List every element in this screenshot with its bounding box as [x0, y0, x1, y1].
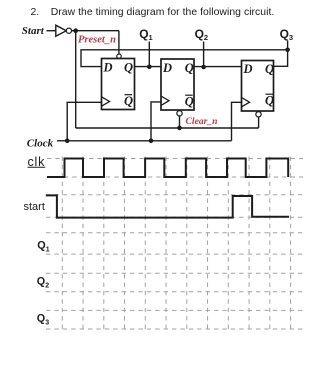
inverter U1 triangle [56, 25, 67, 36]
flip-flop U4 (FF3) box [242, 61, 274, 112]
wire clock branch to FF3 [232, 102, 242, 141]
wire clear branch up to FF2 bubble [179, 116, 181, 128]
svg-text:Q: Q [195, 27, 204, 41]
svg-text:Q: Q [280, 27, 289, 41]
svg-text:1: 1 [149, 33, 153, 42]
svg-text:2: 2 [204, 33, 208, 42]
svg-text:Q: Q [185, 61, 194, 75]
clk waveform trace [47, 159, 288, 178]
svg-text:Q: Q [37, 313, 45, 325]
svg-text:Start: Start [22, 25, 45, 37]
wire Q1 label drop [148, 42, 150, 67]
wire Q1 net FF1.Q to FF2.D [135, 66, 162, 68]
preset bubble on FF1 top [117, 54, 121, 58]
wire clock branch to FF2 [151, 102, 161, 141]
svg-text:3: 3 [45, 320, 49, 327]
node inverter output junction [73, 28, 78, 33]
wire Q3 net FF3.Q up to feedback [274, 50, 288, 67]
FF1 clock triangle [102, 97, 110, 106]
svg-text:Q: Q [265, 62, 274, 76]
wire bubble to node [72, 30, 76, 32]
wire clear stub up to FF3 bubble [258, 117, 260, 128]
node Q1 [147, 65, 152, 70]
svg-text:Preset_n: Preset_n [78, 34, 116, 45]
svg-text:2.: 2. [31, 7, 40, 18]
wire Q3 label drop [287, 41, 289, 50]
svg-text:Draw the timing diagram for th: Draw the timing diagram for the followin… [51, 7, 275, 18]
svg-text:start: start [24, 201, 45, 213]
svg-text:2: 2 [45, 283, 49, 290]
svg-text:Clear_n: Clear_n [186, 116, 218, 127]
clear bubble under FF3 [256, 112, 261, 117]
wire clear net horizontal run [76, 127, 259, 129]
FF3 clock triangle [242, 98, 250, 107]
wire clock branch to FF1 [67, 102, 101, 141]
svg-text:Q: Q [37, 276, 45, 288]
svg-text:Clock: Clock [27, 137, 54, 149]
FF2 Qbar overbar [185, 94, 193, 96]
start waveform trace [46, 195, 289, 217]
node Q3 [285, 48, 290, 53]
node clock FF1 branch [65, 139, 70, 144]
FF2 clock triangle [161, 96, 169, 105]
FF1 Qbar overbar [125, 94, 133, 96]
timing diagram horizontal dashed level lines [46, 159, 303, 330]
svg-text:1: 1 [46, 246, 50, 253]
svg-text:D: D [243, 62, 253, 76]
wire start vertical down to clear net [75, 31, 77, 128]
node clock FF2 branch [149, 139, 154, 144]
wire Q2 label drop [203, 42, 205, 68]
svg-text:Q: Q [124, 94, 133, 108]
wire preset top run [76, 30, 119, 32]
wire preset vertical to FF1 preset bubble [118, 31, 120, 54]
node Q2 [201, 65, 206, 70]
svg-text:Q: Q [124, 60, 133, 74]
wire clock main line [57, 140, 232, 142]
svg-text:Q: Q [37, 240, 45, 252]
flip-flop U2 (FF1) box [102, 59, 135, 110]
svg-text:D: D [162, 61, 172, 75]
clk label underline [28, 166, 46, 168]
flip-flop U3 (FF2) box [161, 59, 194, 110]
wire Start lead [47, 30, 56, 32]
timing diagram vertical dashed gridlines [62, 157, 290, 330]
wire feedback from Q3 node to D1 [81, 50, 288, 67]
FF3 Qbar overbar [266, 93, 274, 95]
node clear net at FF2 [177, 126, 182, 131]
svg-text:Q: Q [185, 95, 194, 109]
svg-text:3: 3 [289, 33, 293, 42]
wire Q2 net FF2.Q to FF3.D [194, 66, 242, 68]
svg-text:D: D [103, 60, 113, 74]
clear bubble under FF2 [177, 111, 182, 116]
inverter U1 output bubble [66, 28, 71, 33]
svg-text:Q: Q [139, 27, 148, 41]
svg-text:Q: Q [265, 94, 274, 108]
